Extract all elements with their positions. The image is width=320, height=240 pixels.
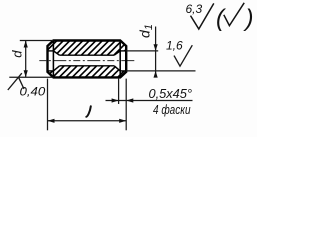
dimension d: extension lines (20, 40, 54, 42)
chamfer small dimension: extension line from chamfer (118, 79, 120, 104)
svg-text:d: d (10, 50, 25, 58)
dimension d1: extension lines (126, 50, 158, 52)
svg-text:4 фаски: 4 фаски (153, 103, 191, 117)
svg-text:0,5x45°: 0,5x45° (149, 87, 193, 101)
dimension d: dimension line with arrows (25, 41, 27, 78)
roughness 0,40 symbol on bottom extension line (8, 73, 24, 90)
roughness 1,6 symbol (174, 45, 192, 66)
svg-text:0,40: 0,40 (20, 85, 46, 99)
svg-text:6,3: 6,3 (186, 2, 203, 16)
centerline (axis, dash-dot) (39, 60, 136, 62)
dimension d1: dimension line, arrows outside (155, 27, 157, 78)
dimension l: dimension line with arrows (48, 120, 127, 122)
bore bottom edge (60, 65, 115, 67)
bore opening edges on left face (48, 50, 54, 52)
hatched section: top wall (48, 41, 127, 56)
bore opening edges on right face (120, 50, 126, 52)
bore chamfer edges, right end (114, 51, 120, 55)
right end-face chamfer edge line (119, 41, 121, 78)
6,3 check symbol (191, 3, 214, 29)
hatched section: bottom wall (48, 66, 127, 78)
dimension l: extension lines (47, 79, 49, 131)
bore chamfer edges, left end (53, 51, 59, 55)
outer profile (thick visible contour with 45deg corner chamfers) (48, 41, 127, 78)
svg-text:1,6: 1,6 (166, 39, 183, 53)
bore top edge (60, 54, 115, 56)
label l (86, 106, 91, 117)
left end-face chamfer edge line (52, 41, 54, 78)
chamfer leader/dimension line with note shelf (106, 100, 193, 102)
